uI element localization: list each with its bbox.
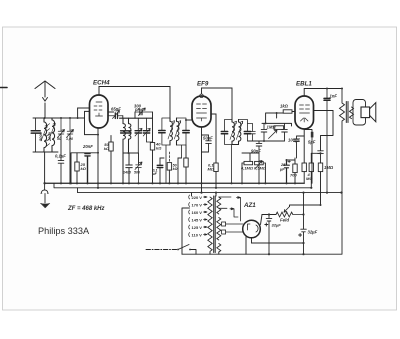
IFT2 left capacitor xyxy=(225,120,233,184)
trimmer osc mid row xyxy=(147,118,153,142)
capacitor 50uF cathode xyxy=(202,135,212,152)
svg-text:20nF: 20nF xyxy=(82,144,93,149)
tube EBL1 electrodes xyxy=(300,105,310,122)
capacitor IF pad a xyxy=(159,158,161,183)
wire EBL1 cathode down xyxy=(303,129,305,163)
capacitor screen xyxy=(318,151,324,163)
wire 0.4M to rail2 xyxy=(310,153,312,188)
svg-text:110 V: 110 V xyxy=(192,232,203,237)
wire detector xyxy=(248,140,265,142)
resistor 40k xyxy=(150,143,154,151)
IFT2 coil primary xyxy=(232,120,234,145)
tube EBL1 envelope xyxy=(295,96,314,129)
capacitor osc mid row xyxy=(137,118,139,153)
transformer output core xyxy=(346,102,348,123)
wire EF9 cathode down xyxy=(201,127,203,193)
svg-text:0,5MΩ: 0,5MΩ xyxy=(254,166,267,171)
capacitor pot right xyxy=(264,123,287,141)
coil L2 tuning xyxy=(52,118,55,152)
transformer HT secondary xyxy=(217,197,221,214)
electrolytic 25uF xyxy=(284,160,290,183)
IFT1 coil secondary xyxy=(177,118,179,145)
transformer primary winding xyxy=(208,197,212,251)
wire 1k to EBL1 grid xyxy=(292,111,295,113)
field coil Feld xyxy=(276,212,304,217)
potentiometer wiper arrow xyxy=(269,130,278,138)
svg-text:1nF: 1nF xyxy=(330,93,338,98)
IFT2 core arrows xyxy=(230,121,243,139)
wire AVC line xyxy=(211,114,216,188)
resistor AVC 0.1M xyxy=(214,163,218,172)
svg-text:32µF: 32µF xyxy=(272,223,282,228)
IFT2 coil secondary xyxy=(232,120,241,145)
wire AZ1 to field junction xyxy=(261,215,263,225)
svg-text:1MΩ: 1MΩ xyxy=(267,124,277,129)
wire trimmer1 down xyxy=(60,136,62,158)
wire EF9 anode to IFT2 xyxy=(202,88,233,120)
svg-text:100µF: 100µF xyxy=(288,138,300,143)
svg-text:kΩ: kΩ xyxy=(104,146,110,151)
resistor screen 1M xyxy=(318,163,322,172)
scan mark left border xyxy=(1,87,8,89)
wire ECH4 anode to IFT2 xyxy=(99,87,170,119)
svg-text:ECH4: ECH4 xyxy=(93,80,110,87)
svg-text:kΩ: kΩ xyxy=(156,146,162,151)
antenna lead break arrow xyxy=(43,98,48,102)
resistor row 0.5M with wiper xyxy=(255,161,264,164)
svg-text:32µF: 32µF xyxy=(308,230,318,235)
svg-text:kΩ: kΩ xyxy=(173,167,178,171)
wire IF pads top link xyxy=(160,157,182,159)
rectifier AZ1 xyxy=(243,220,261,238)
transformer core xyxy=(214,196,216,253)
svg-text:2000: 2000 xyxy=(47,131,52,142)
IFT1 core arrows xyxy=(168,121,181,139)
svg-text:0,1MΩ: 0,1MΩ xyxy=(241,166,254,171)
wire osc coil to 300pF xyxy=(134,112,136,118)
capacitor 1nF xyxy=(326,89,328,193)
svg-text:500: 500 xyxy=(134,171,140,175)
resistor 1k grid EBL1 xyxy=(283,110,292,113)
svg-text:AZ1: AZ1 xyxy=(243,202,256,209)
transformer filament terminals xyxy=(222,222,226,226)
wire primary bottom left xyxy=(182,208,190,254)
wire pot to grid resistor xyxy=(266,113,284,123)
resistor EBL1 cathode xyxy=(302,163,306,172)
svg-text:1400: 1400 xyxy=(123,171,131,175)
trimmer C osc pad 1 xyxy=(58,118,65,138)
speaker magnet xyxy=(361,107,370,118)
capacitor IFT2 out xyxy=(248,124,256,142)
IFT1 right capacitor xyxy=(177,118,187,158)
tube EF9 top cap xyxy=(200,94,204,98)
wire ECH4 grid2 right xyxy=(108,111,114,113)
capacitor antenna series xyxy=(35,118,37,152)
tube ECH4 envelope xyxy=(90,95,109,128)
svg-text:EF9: EF9 xyxy=(197,81,209,88)
AZ1 internal plates xyxy=(248,224,259,232)
svg-text:160 V: 160 V xyxy=(192,210,203,215)
node input bottom bar xyxy=(33,151,58,153)
resistor row 0.1M xyxy=(242,162,244,164)
ganged link dashed xyxy=(168,152,170,163)
transformer output secondary xyxy=(350,107,354,119)
wire antenna lead xyxy=(44,82,46,118)
wire IF pad c xyxy=(177,158,179,183)
svg-text:Feld: Feld xyxy=(280,218,289,223)
svg-text:1MΩ: 1MΩ xyxy=(324,165,334,170)
wire osc top xyxy=(122,116,124,119)
tap arrows xyxy=(204,196,208,235)
tube ECH4 electrodes xyxy=(94,102,103,116)
wire HT lead anode 2 xyxy=(219,208,238,217)
wire cathode bar xyxy=(71,153,98,184)
wire AZ1 heater down xyxy=(245,236,247,254)
antenna xyxy=(35,81,55,89)
svg-text:0,1µF: 0,1µF xyxy=(55,154,66,159)
IFT2 right capacitor xyxy=(239,120,248,142)
capacitor osc pad fixed xyxy=(123,153,132,183)
electrolytic 32uF first xyxy=(265,215,272,255)
wire resistor row verticals xyxy=(242,153,265,183)
svg-text:145 V: 145 V xyxy=(192,217,203,222)
svg-text:1kΩ: 1kΩ xyxy=(280,104,289,109)
mains cord dashed xyxy=(146,249,178,251)
resistor 50k xyxy=(109,142,113,151)
svg-text:MΩ: MΩ xyxy=(306,176,313,181)
wire EF9 grid pin xyxy=(186,119,192,121)
capacitor 0.1uF xyxy=(58,158,64,183)
svg-text:5000: 5000 xyxy=(38,131,43,141)
transformer output primary xyxy=(340,89,345,255)
trimmer osc padder xyxy=(135,162,142,183)
tap hooks xyxy=(189,195,190,237)
wire to ground bus xyxy=(44,152,46,183)
transformer mains tap lead 220 xyxy=(191,193,193,196)
capacitor pot left xyxy=(261,123,267,141)
capacitor 20nF xyxy=(85,154,90,184)
wire AZ1 cathode out xyxy=(252,238,304,243)
transformer LT secondary xyxy=(217,218,221,241)
svg-text:µF: µF xyxy=(279,167,285,172)
svg-text:90pF: 90pF xyxy=(251,149,261,154)
svg-text:5µF: 5µF xyxy=(308,140,316,145)
wire ECH4 cathode down xyxy=(97,128,99,188)
wire jog osc xyxy=(129,153,139,164)
coil L3 osc primary xyxy=(120,118,153,183)
ground symbol xyxy=(41,183,48,203)
trimmer C osc pad 2 xyxy=(67,118,74,138)
wire 300pF right down xyxy=(152,112,154,143)
wire HT lead anode 1 xyxy=(219,197,241,221)
svg-text:170 V: 170 V xyxy=(192,202,203,207)
coil L4 osc secondary xyxy=(129,118,131,153)
svg-text:125 V: 125 V xyxy=(192,225,203,230)
capacitor 100uF cathode xyxy=(294,136,305,158)
rail B-minus bus xyxy=(78,188,342,193)
wire 40k to bus xyxy=(152,150,154,183)
svg-text:EBL1: EBL1 xyxy=(296,81,312,88)
svg-text:220 V: 220 V xyxy=(192,195,203,200)
svg-text:µF: µF xyxy=(152,172,158,176)
svg-text:50: 50 xyxy=(57,137,61,141)
rail ground bus xyxy=(45,182,305,184)
resistor 700ohm xyxy=(293,164,297,173)
field coil wire left xyxy=(262,214,276,216)
trimmer 65pF xyxy=(108,111,123,119)
wire filament links xyxy=(226,224,243,232)
svg-text:kΩ: kΩ xyxy=(81,166,87,171)
tube EF9 envelope xyxy=(192,96,211,127)
wire EF9 grid down xyxy=(185,145,187,183)
electrolytic 5uF xyxy=(311,132,314,138)
svg-text:ZF = 468 kHz: ZF = 468 kHz xyxy=(67,206,105,212)
trimmer 300pF xyxy=(135,108,153,116)
coil arrows L1 L2 xyxy=(41,123,55,141)
resistor grid EF9 xyxy=(184,158,188,167)
svg-text:Philips 333A: Philips 333A xyxy=(38,226,90,236)
resistor 25k cathode xyxy=(75,162,79,171)
osc core bars xyxy=(121,131,131,133)
wire feedback jog xyxy=(311,152,320,154)
coil L1 antenna xyxy=(44,118,47,152)
wire grid feed xyxy=(78,108,98,135)
electrolytic 32uF second xyxy=(299,193,307,255)
svg-text:1,00: 1,00 xyxy=(66,137,73,141)
resistor IF pad b xyxy=(167,163,171,171)
wire trimmer2 down to bus xyxy=(69,136,71,183)
resistor 0.4M xyxy=(309,163,313,172)
speaker voice coil frame xyxy=(353,100,366,126)
wire tap to screen resistor xyxy=(290,205,321,207)
node input top bar xyxy=(33,117,85,119)
transformer heater secondary xyxy=(217,244,221,253)
svg-text:50µF: 50µF xyxy=(203,136,213,141)
wire screen resistor to tap xyxy=(320,172,322,205)
wire cathode resistor to bus xyxy=(76,153,78,184)
field coil tap arrow xyxy=(284,207,290,213)
potentiometer 1M xyxy=(274,126,284,130)
wire resistor 50k xyxy=(110,136,112,184)
wire 700ohm xyxy=(287,158,296,183)
tube EF9 electrodes xyxy=(197,104,207,121)
wire HT bottom rail xyxy=(182,253,342,255)
wire screen feed xyxy=(314,111,334,151)
core hatch L1 L2 xyxy=(47,124,50,146)
speaker cone xyxy=(370,103,376,122)
capacitor 90pF xyxy=(256,141,262,183)
wire primary bottom stub xyxy=(210,252,219,254)
svg-text:700: 700 xyxy=(290,173,297,178)
IFT1 coil primary xyxy=(170,118,172,145)
rail heater bus xyxy=(54,183,311,188)
IFT1 left capacitor xyxy=(162,118,170,183)
wire heater sec to rail xyxy=(215,193,217,196)
svg-text:MΩ: MΩ xyxy=(208,167,215,172)
wire EBL1 anode top xyxy=(304,89,342,97)
svg-text:65pF: 65pF xyxy=(111,106,121,111)
wire rail1 end up xyxy=(303,172,305,184)
mains switch xyxy=(178,245,196,255)
wire volume pot top xyxy=(262,123,292,126)
